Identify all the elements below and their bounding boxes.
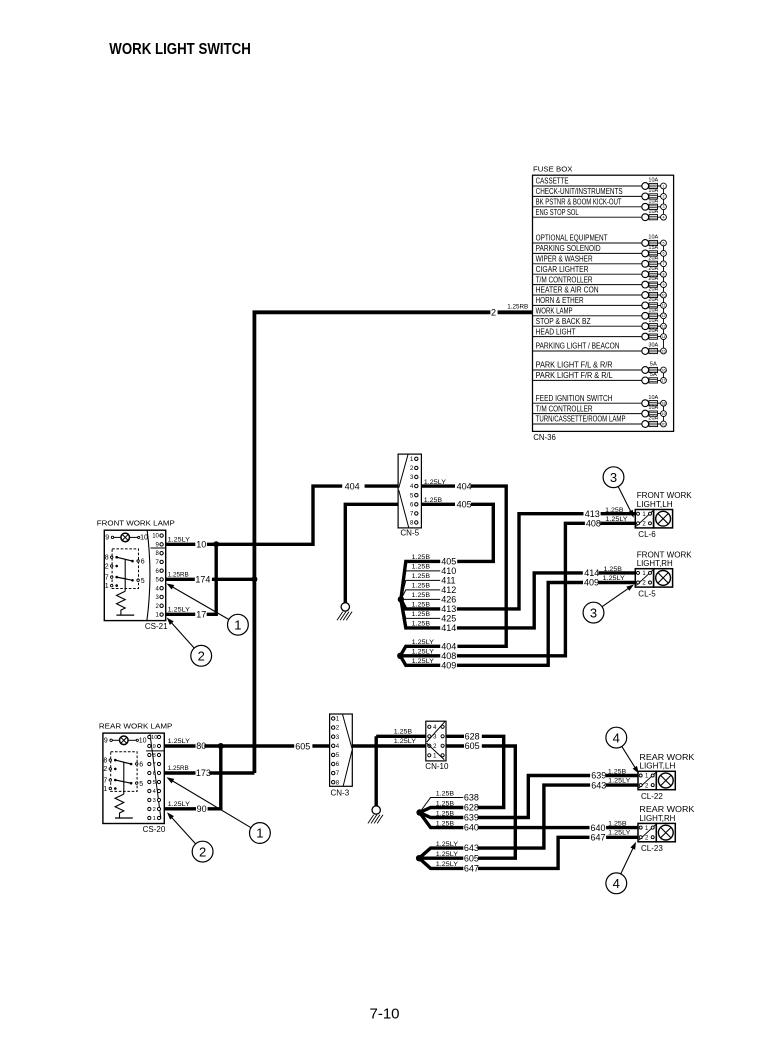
wire 409 1.25LY bundle: [400, 656, 440, 666]
svg-text:1.25LY: 1.25LY: [424, 479, 447, 486]
wire 647 1.25LY bundle rear: [419, 858, 463, 868]
svg-text:5: 5: [139, 781, 143, 788]
svg-text:T/M CONTROLLER: T/M CONTROLLER: [536, 404, 593, 413]
svg-text:174: 174: [195, 574, 210, 584]
svg-text:FEED IGNITION SWITCH: FEED IGNITION SWITCH: [536, 394, 613, 403]
svg-text:1.25LY: 1.25LY: [412, 658, 435, 665]
svg-text:405: 405: [441, 557, 456, 567]
junction pin9-pin2: [218, 743, 224, 749]
svg-text:10A: 10A: [648, 395, 658, 401]
fuse row FEED IGNITION SWITCH 10A: [533, 402, 646, 404]
CL-22 pins: [639, 772, 656, 788]
svg-text:628: 628: [464, 803, 479, 813]
fuse row BK PSTNR & BOOM KICK-OUT 10A: [533, 206, 646, 208]
svg-text:2: 2: [103, 766, 107, 773]
svg-text:20: 20: [662, 422, 666, 426]
svg-text:1.25B: 1.25B: [436, 790, 455, 797]
svg-text:1.25LY: 1.25LY: [603, 575, 626, 582]
svg-text:638: 638: [464, 793, 479, 803]
svg-text:408: 408: [586, 518, 601, 528]
svg-text:19: 19: [662, 412, 666, 416]
svg-text:10A: 10A: [648, 307, 658, 313]
svg-text:643: 643: [591, 780, 606, 790]
svg-text:1.25LY: 1.25LY: [436, 841, 459, 848]
svg-text:1.25B: 1.25B: [412, 592, 431, 599]
svg-text:7-10: 7-10: [369, 1006, 399, 1023]
wire 404 1.25LY bundle: [400, 646, 440, 656]
wire 639 to CL-22 pin1: [478, 776, 590, 818]
svg-text:1: 1: [103, 786, 107, 793]
svg-text:1.25RB: 1.25RB: [168, 765, 189, 772]
svg-text:410: 410: [441, 566, 456, 576]
svg-text:9: 9: [153, 744, 156, 750]
wire 409 to CL-5 pin2: [457, 583, 583, 666]
svg-text:1.25B: 1.25B: [394, 729, 413, 736]
svg-text:1.25LY: 1.25LY: [436, 861, 459, 868]
svg-text:6: 6: [141, 559, 145, 566]
fuse row HORN & ETHER 20A: [533, 304, 646, 306]
wire 1.25B to CN-10 pin3: [376, 735, 426, 738]
wire 643 1.25LY bundle rear: [419, 848, 463, 858]
svg-text:2: 2: [105, 563, 109, 570]
wire 426 1.25B bundle: [401, 598, 440, 600]
svg-text:10A: 10A: [648, 318, 658, 324]
svg-text:10: 10: [152, 534, 159, 540]
svg-text:425: 425: [441, 614, 456, 624]
svg-text:CN-36: CN-36: [533, 433, 556, 442]
CS-20 wiper 8-6: [115, 760, 131, 764]
splice junction 1.25B bundle (rear): [416, 809, 422, 815]
svg-text:647: 647: [591, 833, 606, 843]
svg-text:20A: 20A: [648, 297, 658, 303]
svg-text:ENG STOP SOL: ENG STOP SOL: [536, 208, 579, 217]
svg-text:9: 9: [104, 738, 108, 745]
callout 2 circle: [192, 841, 213, 862]
callout 1 circle: [228, 614, 249, 635]
svg-text:640: 640: [591, 823, 606, 833]
svg-text:9: 9: [105, 535, 109, 542]
svg-text:20A: 20A: [648, 266, 658, 272]
wire 605 1.25LY bundle rear: [419, 857, 463, 860]
fuse row PARK LIGHT F/R & R/L 5A: [533, 379, 646, 381]
wire 173 1.25RB from CS-20 pin6: [165, 771, 196, 774]
fuse row STOP & BACK BZ 10A: [533, 325, 646, 327]
CS-21 contact block dashed box: [112, 549, 138, 589]
svg-text:413: 413: [441, 604, 456, 614]
svg-text:3: 3: [590, 605, 597, 620]
svg-text:10: 10: [139, 738, 147, 745]
svg-text:1.25LY: 1.25LY: [412, 639, 435, 646]
svg-text:1.25LY: 1.25LY: [168, 801, 191, 808]
svg-text:605: 605: [464, 853, 479, 863]
svg-text:605: 605: [295, 741, 310, 751]
svg-text:1.25LY: 1.25LY: [168, 738, 191, 745]
svg-text:90: 90: [197, 804, 207, 814]
fuse row WIPER & WASHER 20A: [533, 263, 646, 265]
svg-text:LIGHT,LH: LIGHT,LH: [637, 500, 673, 509]
svg-text:1.25LY: 1.25LY: [608, 829, 631, 836]
wire 425 1.25B bundle: [401, 599, 440, 618]
fuse row WORK LAMP 10A: [533, 315, 646, 317]
CL-5 pins: [636, 570, 653, 586]
wire 90 1.25LY from CS-20 pin2: [165, 807, 196, 810]
svg-text:1.25B: 1.25B: [436, 800, 455, 807]
wire 405 1.25B out of CN-5 pin6: [421, 503, 455, 506]
wire 174 1.25RB from CS-21 pin5: [166, 578, 195, 581]
svg-text:1.25LY: 1.25LY: [168, 536, 191, 543]
svg-text:10A: 10A: [648, 198, 658, 204]
wire 2 1.25RB from WORK LAMP fuse: [498, 310, 532, 314]
svg-text:18: 18: [662, 402, 666, 406]
svg-text:11: 11: [662, 304, 666, 308]
wire 647 to CL-23 pin2: [478, 837, 590, 868]
svg-text:404: 404: [441, 641, 456, 651]
fuse row HEATER & AIR CON 20A: [533, 294, 646, 296]
svg-text:2: 2: [153, 807, 156, 813]
CL-5 lamp circle: [656, 571, 671, 586]
svg-text:5: 5: [663, 241, 665, 245]
svg-text:15A: 15A: [648, 245, 658, 251]
wire 17 1.25LY from CS-21 pin1: [166, 613, 196, 616]
svg-text:5: 5: [141, 578, 145, 585]
svg-text:1.25B: 1.25B: [608, 768, 627, 775]
svg-text:639: 639: [591, 771, 606, 781]
fuse row ENG STOP SOL 10A: [533, 216, 646, 218]
fuse chain: [663, 403, 665, 424]
splice junction 1.25LY bundle (front): [397, 653, 403, 659]
CL-23 lamp circle: [658, 825, 673, 840]
svg-text:640: 640: [464, 823, 479, 833]
svg-text:409: 409: [441, 660, 456, 670]
wire 605 out of CN-10 pin2: [446, 744, 464, 747]
CS-20 pin column: [146, 750, 165, 752]
CS-21 wiper 8-6: [117, 557, 133, 561]
svg-text:1.25B: 1.25B: [608, 820, 627, 827]
svg-text:3: 3: [663, 205, 665, 209]
wire 408 to CL-6 pin2: [457, 523, 585, 656]
svg-text:FRONT WORK: FRONT WORK: [637, 550, 693, 559]
svg-text:1.25LY: 1.25LY: [605, 516, 628, 523]
fuse row CASSETTE 10A: [533, 185, 646, 187]
svg-text:1.25B: 1.25B: [412, 583, 431, 590]
svg-text:HEAD LIGHT: HEAD LIGHT: [536, 327, 576, 336]
svg-text:WORK LAMP: WORK LAMP: [536, 307, 573, 316]
svg-text:17: 17: [662, 379, 666, 383]
svg-text:17: 17: [196, 609, 206, 619]
wire 628 out of CN-10 pin3: [446, 735, 464, 738]
svg-text:1.25B: 1.25B: [412, 621, 431, 628]
svg-text:7: 7: [103, 777, 107, 784]
svg-text:1.25RB: 1.25RB: [168, 571, 189, 578]
svg-text:1.25B: 1.25B: [424, 497, 443, 504]
svg-text:8: 8: [105, 555, 109, 562]
junction trunk-174: [251, 576, 257, 582]
svg-text:4: 4: [663, 216, 665, 220]
svg-text:10: 10: [151, 735, 157, 741]
svg-text:2: 2: [491, 307, 496, 317]
connector CN-5: [398, 454, 421, 528]
svg-text:12: 12: [662, 314, 666, 318]
svg-text:4: 4: [613, 876, 620, 891]
svg-text:20A: 20A: [648, 328, 658, 334]
svg-text:10: 10: [662, 293, 666, 297]
svg-text:6: 6: [139, 761, 143, 768]
svg-text:414: 414: [441, 623, 456, 633]
wire trunk vertical: [254, 312, 490, 773]
svg-text:CHECK-UNIT/INSTRUMENTS: CHECK-UNIT/INSTRUMENTS: [536, 187, 623, 196]
connector CN-10: [426, 721, 446, 761]
wire 413 1.25B bundle: [401, 599, 440, 609]
svg-text:CIGAR LIGHTER: CIGAR LIGHTER: [536, 265, 589, 274]
svg-text:628: 628: [465, 731, 480, 741]
svg-text:647: 647: [464, 864, 479, 874]
fuse row T/M CONTROLLER 20A: [533, 284, 646, 286]
svg-text:CN-10: CN-10: [425, 762, 449, 771]
CL-6 pins: [636, 511, 653, 527]
svg-text:1.25B: 1.25B: [436, 820, 455, 827]
callout 4 circle: [606, 873, 627, 894]
svg-text:PARKING LIGHT / BEACON: PARKING LIGHT / BEACON: [536, 342, 620, 351]
svg-text:8: 8: [153, 753, 156, 759]
svg-text:1.25LY: 1.25LY: [436, 851, 459, 858]
wire 412 1.25B bundle: [401, 590, 440, 600]
wire 405 1.25B bundle: [401, 561, 440, 599]
wire 643 to CL-22 pin2: [478, 785, 590, 848]
svg-text:20A: 20A: [648, 416, 658, 422]
svg-text:605: 605: [465, 741, 480, 751]
svg-text:WORK LIGHT SWITCH: WORK LIGHT SWITCH: [109, 41, 251, 58]
callout 2 arrow: [171, 817, 195, 844]
svg-text:CL-22: CL-22: [641, 792, 663, 801]
svg-text:404: 404: [457, 481, 472, 491]
ground (rear): [372, 806, 380, 814]
fuse row PARKING LIGHT / BEACON 30A: [533, 350, 646, 352]
svg-text:1.25B: 1.25B: [436, 810, 455, 817]
fuse chain: [663, 370, 665, 380]
wire 414 to CL-5 pin1: [457, 573, 583, 628]
fuse row CIGAR LIGHTER 20A: [533, 273, 646, 275]
callout 1 circle: [250, 823, 271, 844]
svg-text:1.25B: 1.25B: [412, 573, 431, 580]
svg-text:CN-5: CN-5: [400, 528, 419, 537]
svg-text:9: 9: [663, 283, 665, 287]
callout 1 arrow: [172, 587, 229, 620]
callout 3 circle: [583, 602, 604, 623]
svg-text:409: 409: [584, 578, 599, 588]
callout 4 arrow: [621, 848, 633, 874]
svg-text:1: 1: [105, 583, 109, 590]
svg-text:20A: 20A: [648, 255, 658, 261]
svg-text:10: 10: [140, 535, 148, 542]
svg-text:5: 5: [153, 780, 156, 786]
svg-text:14: 14: [662, 335, 666, 339]
callout 4 arrow: [622, 746, 636, 768]
callout 3 arrow: [618, 486, 631, 511]
fuse row T/M CONTROLLER 10A: [533, 413, 646, 415]
wire CN-5 pin6 to ground: [345, 504, 398, 602]
svg-text:4: 4: [153, 789, 156, 795]
svg-text:1.25B: 1.25B: [412, 602, 431, 609]
wire 408 1.25LY bundle: [400, 654, 440, 657]
fuse row HEAD LIGHT 20A: [533, 336, 646, 338]
svg-text:WIPER & WASHER: WIPER & WASHER: [536, 255, 593, 264]
wire 640 to CL-23 pin1: [478, 826, 590, 829]
fuse row TURN/CASSETTE/ROOM LAMP 20A: [533, 423, 646, 425]
svg-text:LIGHT,RH: LIGHT,RH: [637, 559, 673, 568]
svg-text:10A: 10A: [648, 209, 658, 215]
svg-text:30A: 30A: [648, 343, 658, 349]
svg-text:1.25B: 1.25B: [412, 564, 431, 571]
CS-20 resistor to ground: [123, 762, 125, 794]
svg-text:6: 6: [663, 252, 665, 256]
svg-text:173: 173: [196, 768, 211, 778]
svg-text:8: 8: [663, 273, 665, 277]
svg-text:639: 639: [464, 813, 479, 823]
svg-text:10A: 10A: [648, 405, 658, 411]
wire 639 1.25B bundle rear: [420, 813, 464, 818]
wire 80 1.25LY from CS-20 pin9: [165, 744, 196, 747]
svg-text:FUSE BOX: FUSE BOX: [533, 164, 573, 173]
svg-text:10A: 10A: [648, 178, 658, 184]
svg-text:PARKING SOLENOID: PARKING SOLENOID: [536, 244, 601, 253]
svg-text:7: 7: [105, 574, 109, 581]
svg-text:405: 405: [457, 500, 472, 510]
svg-text:643: 643: [464, 843, 479, 853]
svg-text:1.25LY: 1.25LY: [168, 606, 191, 613]
CS-20 wiper 7-5: [115, 780, 131, 783]
svg-text:15: 15: [662, 349, 666, 353]
wire 413 to CL-6 pin1: [457, 514, 584, 609]
svg-text:CN-3: CN-3: [331, 788, 350, 797]
CL-23 pins: [639, 824, 656, 840]
svg-text:1.25RB: 1.25RB: [507, 303, 528, 310]
svg-text:BK PSTNR & BOOM KICK-OUT: BK PSTNR & BOOM KICK-OUT: [536, 198, 622, 207]
svg-text:13: 13: [662, 325, 666, 329]
wire 638 1.25B bundle rear: [420, 798, 464, 813]
fuse chain: [663, 186, 665, 217]
svg-text:1.25LY: 1.25LY: [394, 738, 417, 745]
fuse row OPTIONAL EQUIPMENT 10A: [533, 242, 646, 244]
tee vertical to ground (rear): [375, 736, 378, 805]
CL-6 lamp circle: [656, 511, 671, 526]
svg-text:10A: 10A: [648, 235, 658, 241]
svg-text:412: 412: [441, 585, 456, 595]
svg-text:REAR WORK: REAR WORK: [639, 753, 695, 762]
svg-text:5A: 5A: [650, 372, 658, 378]
callout 4 circle: [606, 727, 627, 748]
svg-text:1.25LY: 1.25LY: [608, 777, 631, 784]
wire CN-3 pin4 to tee: [352, 744, 426, 747]
wire 414 1.25B bundle: [401, 599, 440, 628]
svg-text:1.25B: 1.25B: [412, 611, 431, 618]
svg-text:2: 2: [199, 844, 206, 859]
callout 3 circle: [603, 467, 624, 488]
connector CN-3: [330, 714, 353, 786]
svg-text:426: 426: [441, 595, 456, 605]
fuse row PARKING SOLENOID 15A: [533, 252, 646, 254]
svg-text:1: 1: [256, 826, 263, 841]
svg-text:411: 411: [441, 576, 455, 586]
svg-text:1.25B: 1.25B: [605, 507, 624, 514]
svg-text:408: 408: [441, 651, 456, 661]
svg-text:8: 8: [103, 757, 107, 764]
callout 3 arrow: [602, 588, 629, 606]
wire 640 1.25B bundle rear: [420, 813, 464, 828]
svg-text:20A: 20A: [648, 287, 658, 293]
svg-text:16: 16: [662, 368, 666, 372]
svg-text:OPTIONAL EQUIPMENT: OPTIONAL EQUIPMENT: [536, 234, 608, 243]
svg-text:2: 2: [663, 195, 665, 199]
svg-text:6: 6: [153, 771, 156, 777]
svg-text:TURN/CASSETTE/ROOM LAMP: TURN/CASSETTE/ROOM LAMP: [536, 415, 626, 424]
svg-text:STOP & BACK BZ: STOP & BACK BZ: [536, 317, 591, 326]
CS-21 wiper 7-5: [117, 577, 133, 580]
svg-text:3: 3: [153, 798, 156, 804]
svg-text:CL-23: CL-23: [641, 844, 663, 853]
svg-text:HEATER & AIR CON: HEATER & AIR CON: [536, 286, 599, 295]
wire 410 1.25B bundle: [401, 571, 440, 600]
junction pin9-pin1: [213, 541, 219, 547]
wire 404 1.25LY out of CN-5 pin4: [421, 484, 455, 487]
svg-text:CASSETTE: CASSETTE: [536, 177, 569, 186]
svg-text:20A: 20A: [648, 276, 658, 282]
CS-20 contact block dashed box: [111, 752, 137, 792]
svg-text:LIGHT,RH: LIGHT,RH: [639, 814, 675, 823]
svg-text:3: 3: [610, 470, 617, 485]
svg-text:REAR WORK: REAR WORK: [639, 805, 695, 814]
fuse row CHECK-UNIT/INSTRUMENTS 10A: [533, 195, 646, 197]
CS-21 resistor to ground: [124, 559, 126, 591]
callout 2 circle: [191, 645, 212, 666]
splice junction 1.25LY bundle (rear): [416, 855, 422, 861]
wire 10 1.25LY from CS-21 pin9: [166, 543, 196, 546]
svg-text:404: 404: [345, 481, 360, 491]
svg-text:T/M CONTROLLER: T/M CONTROLLER: [536, 275, 593, 284]
svg-text:LIGHT,LH: LIGHT,LH: [639, 762, 675, 771]
svg-text:1.25B: 1.25B: [604, 566, 623, 573]
callout 2 arrow: [171, 622, 194, 648]
CL-22 lamp circle: [658, 773, 673, 788]
svg-text:2: 2: [198, 648, 205, 663]
svg-text:1.25LY: 1.25LY: [412, 649, 435, 656]
wire 411 1.25B bundle: [401, 580, 440, 599]
svg-text:1.25B: 1.25B: [412, 554, 431, 561]
svg-text:7: 7: [663, 262, 665, 266]
svg-text:HORN & ETHER: HORN & ETHER: [536, 296, 584, 305]
svg-text:10: 10: [196, 539, 206, 549]
svg-text:FRONT WORK: FRONT WORK: [637, 491, 693, 500]
svg-text:CS-20: CS-20: [143, 825, 166, 834]
ground (front): [341, 603, 349, 611]
svg-text:CL-5: CL-5: [638, 589, 656, 598]
svg-text:REAR WORK LAMP: REAR WORK LAMP: [99, 722, 172, 731]
svg-text:1: 1: [153, 816, 156, 822]
svg-text:10A: 10A: [648, 188, 658, 194]
svg-text:4: 4: [613, 730, 620, 745]
wire 628 1.25B bundle rear: [420, 808, 464, 813]
svg-text:PARK LIGHT F/R & R/L: PARK LIGHT F/R & R/L: [536, 371, 614, 380]
svg-text:PARK LIGHT F/L & R/R: PARK LIGHT F/L & R/R: [536, 361, 613, 370]
svg-text:CS-21: CS-21: [145, 622, 168, 631]
svg-text:FRONT WORK LAMP: FRONT WORK LAMP: [97, 519, 175, 528]
svg-text:CL-6: CL-6: [638, 530, 656, 539]
fuse row PARK LIGHT F/L & R/R 5A: [533, 369, 646, 371]
svg-text:7: 7: [153, 762, 156, 768]
svg-text:5A: 5A: [650, 362, 658, 368]
callout 1 arrow: [172, 781, 251, 828]
splice junction 1.25B bundle (front): [398, 596, 404, 602]
svg-text:1: 1: [234, 617, 241, 632]
